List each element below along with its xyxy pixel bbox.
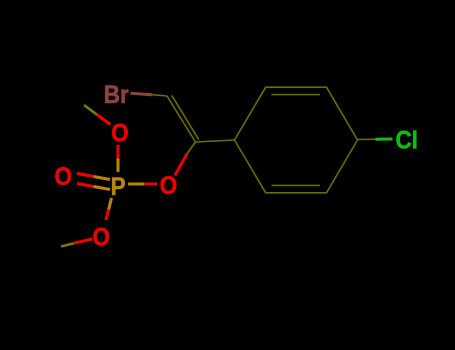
- svg-text:O: O: [93, 223, 111, 251]
- svg-text:O: O: [111, 119, 129, 147]
- svg-text:P: P: [111, 173, 126, 201]
- svg-text:O: O: [160, 172, 178, 200]
- svg-text:Cl: Cl: [396, 126, 418, 154]
- svg-text:O: O: [55, 163, 73, 191]
- svg-text:Br: Br: [104, 81, 129, 109]
